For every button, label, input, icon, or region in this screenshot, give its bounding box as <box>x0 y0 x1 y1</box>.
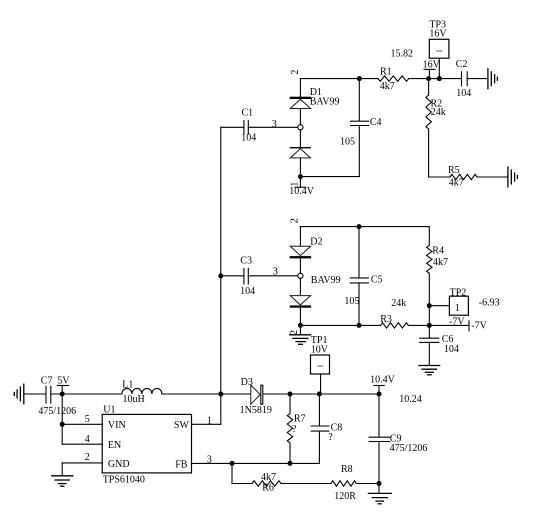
svg-text:EN: EN <box>108 440 121 451</box>
svg-text:3: 3 <box>272 119 277 130</box>
capacitor C5 <box>344 227 382 326</box>
junction <box>357 323 362 328</box>
wire: R6 to R8 <box>281 483 331 485</box>
svg-text:C7: C7 <box>41 376 53 387</box>
wire: D1 bottom to C4 bottom <box>300 176 359 178</box>
junction SW node <box>218 392 223 397</box>
junction <box>377 392 382 397</box>
resistor R3 <box>381 323 409 328</box>
net label 10.4V at D1 bottom <box>299 177 301 188</box>
resistor R6 <box>252 481 281 486</box>
wire: D2 top rail <box>300 226 429 228</box>
junction <box>317 392 322 397</box>
junction <box>218 273 223 278</box>
svg-text:C5: C5 <box>371 275 383 286</box>
inductor L1 <box>122 380 162 406</box>
svg-text:16V: 16V <box>429 28 447 39</box>
junction <box>427 303 432 308</box>
svg-text:2: 2 <box>85 452 90 463</box>
junction <box>230 461 235 466</box>
svg-text:4k7: 4k7 <box>449 178 464 189</box>
wire: charge-pump feed vertical from C1 row down to SW rail <box>220 127 222 394</box>
ground at C9 <box>368 484 391 504</box>
capacitor C1 <box>221 126 244 128</box>
svg-text:TP2: TP2 <box>450 287 467 298</box>
wire: EN pin 4 <box>62 443 102 445</box>
capacitor C2 <box>456 59 488 99</box>
resistor R1 <box>378 76 409 81</box>
test point TP1 <box>311 335 330 394</box>
svg-text:4: 4 <box>85 434 90 445</box>
test point TP2 <box>429 287 468 315</box>
svg-text:VIN: VIN <box>108 420 126 431</box>
svg-text:U1: U1 <box>103 405 115 416</box>
svg-text:104: 104 <box>240 286 255 297</box>
ground at U1 GND <box>52 463 73 486</box>
svg-text:3: 3 <box>273 267 278 278</box>
wire: L1 to D3 anode <box>162 393 251 395</box>
junction <box>298 323 303 328</box>
svg-text:FB: FB <box>175 460 188 471</box>
svg-text:4k7: 4k7 <box>433 257 448 268</box>
ground (right-pointing) at C2 <box>488 69 498 89</box>
capacitor C9 <box>369 394 427 484</box>
wire: VIN pin 5 <box>62 423 102 425</box>
diode D2 (BAV99 dual) <box>290 227 341 326</box>
node: D1 common pin (open circle) <box>298 125 303 130</box>
wire: -7V net bottom rail <box>300 324 380 326</box>
svg-text:475/1206: 475/1206 <box>38 406 76 417</box>
svg-text:10V: 10V <box>311 344 329 355</box>
svg-text:GND: GND <box>108 459 130 470</box>
ground (right-pointing) at R5 <box>508 167 518 187</box>
capacitor C6 <box>420 325 459 365</box>
svg-text:1: 1 <box>207 415 212 426</box>
svg-text:1N5819: 1N5819 <box>240 405 272 416</box>
junction <box>357 76 362 81</box>
svg-text:2: 2 <box>290 70 301 75</box>
svg-text:BAV99: BAV99 <box>310 97 340 108</box>
resistor R4 <box>428 227 430 246</box>
svg-text:3: 3 <box>207 455 212 466</box>
capacitor C7 <box>24 376 122 417</box>
svg-text:105: 105 <box>340 137 355 148</box>
IC U1 TPS61040 <box>102 405 191 486</box>
svg-text:D3: D3 <box>241 377 253 388</box>
svg-text:2: 2 <box>289 218 300 223</box>
svg-text:24k: 24k <box>391 298 406 309</box>
junction <box>288 392 293 397</box>
svg-text:?: ? <box>292 424 297 435</box>
svg-text:R8: R8 <box>341 464 353 475</box>
junction <box>60 392 65 397</box>
svg-text:TPS61040: TPS61040 <box>103 475 145 486</box>
wire: SW pin 1 <box>192 423 221 425</box>
capacitor C4 <box>340 79 382 177</box>
svg-text:104: 104 <box>456 88 471 99</box>
junction <box>357 224 362 229</box>
junction <box>426 76 431 81</box>
test point TP3 <box>429 19 449 78</box>
svg-text:R1: R1 <box>380 66 392 77</box>
node: D2 common pin (open circle) <box>298 273 303 278</box>
svg-text:1: 1 <box>455 303 460 314</box>
svg-text:104: 104 <box>444 344 459 355</box>
svg-text:C1: C1 <box>242 108 254 119</box>
svg-text:C4: C4 <box>370 117 382 128</box>
svg-text:BAV99: BAV99 <box>311 275 341 286</box>
resistor R7 <box>289 394 291 414</box>
capacitor C8 <box>311 394 342 463</box>
svg-text:120R: 120R <box>334 491 356 502</box>
wire: FB drop to R6 <box>231 463 233 483</box>
svg-text:R6: R6 <box>262 482 274 493</box>
junction <box>60 422 65 427</box>
svg-text:104: 104 <box>241 133 256 144</box>
svg-text:-7V: -7V <box>471 321 487 332</box>
svg-text:SW: SW <box>174 420 190 431</box>
svg-text:24k: 24k <box>431 107 446 118</box>
wire: FB pin 3 <box>192 462 320 464</box>
ground under D2 <box>290 325 311 344</box>
svg-text:?: ? <box>328 432 333 443</box>
junction <box>427 323 432 328</box>
svg-text:10.4V: 10.4V <box>370 375 396 386</box>
svg-text:10.24: 10.24 <box>399 394 422 405</box>
wire: R1 to C2 <box>409 78 462 80</box>
svg-text:C3: C3 <box>240 255 252 266</box>
wire: GND pin 2 <box>62 462 102 464</box>
capacitor C3 <box>221 255 298 297</box>
off-page flag -7V <box>468 321 470 331</box>
svg-text:-6.93: -6.93 <box>479 297 500 308</box>
svg-text:475/1206: 475/1206 <box>390 443 428 454</box>
svg-text:L1: L1 <box>122 380 133 391</box>
junction <box>298 174 303 179</box>
svg-text:D2: D2 <box>310 236 322 247</box>
junction <box>437 76 442 81</box>
wire: R8 to C9 foot <box>356 483 379 485</box>
resistor R5 <box>429 176 450 178</box>
svg-text:R4: R4 <box>432 246 444 257</box>
ground (left-pointing) at input <box>14 384 23 404</box>
svg-text:C2: C2 <box>456 59 468 70</box>
ground at C6 <box>419 366 440 375</box>
svg-text:105: 105 <box>344 296 359 307</box>
svg-text:R5: R5 <box>448 165 460 176</box>
svg-text:5: 5 <box>85 414 90 425</box>
wire: 5V branch vertical <box>61 394 63 444</box>
diode D3 1N5819 <box>240 377 272 416</box>
svg-text:R3: R3 <box>380 314 392 325</box>
svg-text:15.82: 15.82 <box>391 49 414 60</box>
svg-text:4k7: 4k7 <box>380 81 395 92</box>
resistor R8 <box>331 481 356 486</box>
wire: D1 top rail to R1 <box>300 78 378 80</box>
diode D1 (BAV99 dual) <box>290 79 340 177</box>
wire: D3 cathode to output node <box>263 393 379 395</box>
svg-text:10uH: 10uH <box>123 394 145 405</box>
svg-text:-7V: -7V <box>449 316 465 327</box>
resistor R2 <box>426 95 431 129</box>
svg-text:10.4V: 10.4V <box>289 186 315 197</box>
junction <box>377 481 382 486</box>
junction <box>288 461 293 466</box>
